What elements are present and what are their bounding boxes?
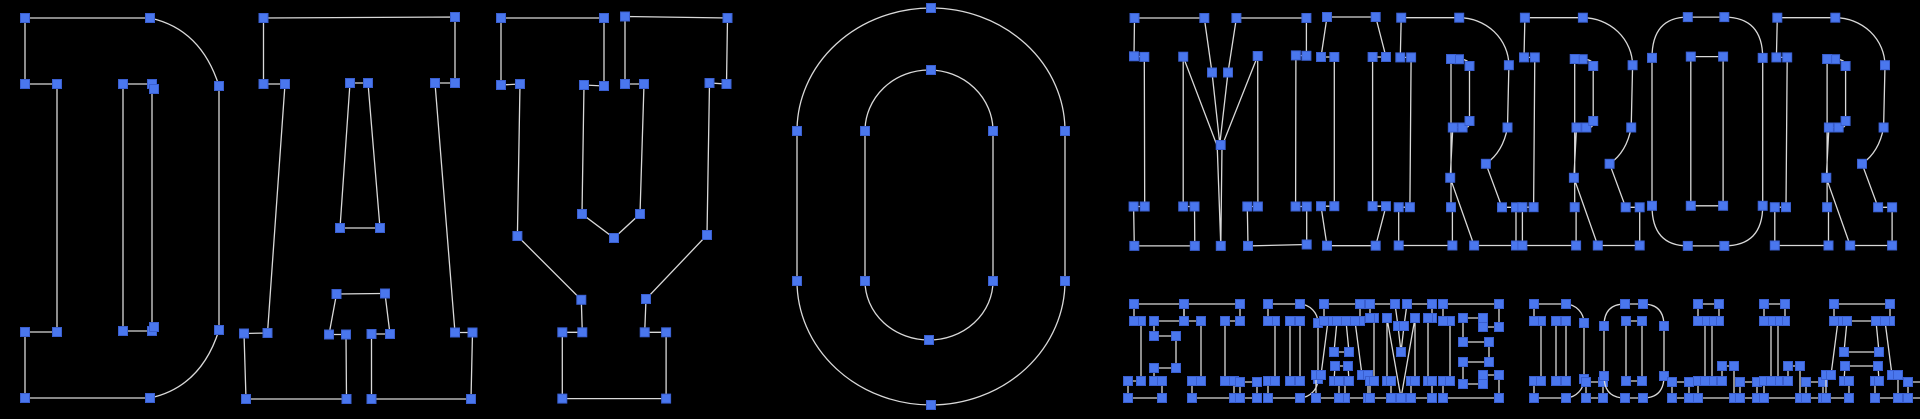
small letter E of DAME (1439, 300, 1504, 403)
glyph R1 of MIRROR (1394, 13, 1520, 250)
glyph R2 of MIRROR (1518, 13, 1644, 250)
small letter D of DAME (1264, 300, 1323, 403)
period after D (1582, 378, 1608, 403)
glyph O (793, 4, 1070, 410)
glyph R3 of MIRROR (1770, 13, 1896, 250)
small letter D of DOLLA (1530, 300, 1589, 403)
period after L1 (1736, 378, 1762, 403)
small letter T (1180, 300, 1245, 403)
small letter A of DAME (1312, 300, 1373, 403)
glyph A (240, 13, 478, 404)
glyph Y (497, 12, 733, 403)
period after L2 (1802, 378, 1828, 403)
period after O (1668, 378, 1694, 403)
small letter M of DAME (1366, 300, 1437, 403)
small letter A of DOLLA (1822, 300, 1903, 403)
final period (1904, 378, 1920, 403)
glyph O of MIRROR (1648, 13, 1768, 251)
small letter L1 of DOLLA (1694, 300, 1739, 403)
small letter L2 of DOLLA (1760, 300, 1805, 403)
glyph D (21, 14, 224, 403)
small letter O of DOLLA (1600, 300, 1669, 403)
glyph M of MIRROR (1129, 14, 1311, 251)
glyph I of MIRROR (1317, 13, 1391, 251)
period after FT (1236, 378, 1262, 403)
small letter F (1124, 300, 1189, 403)
